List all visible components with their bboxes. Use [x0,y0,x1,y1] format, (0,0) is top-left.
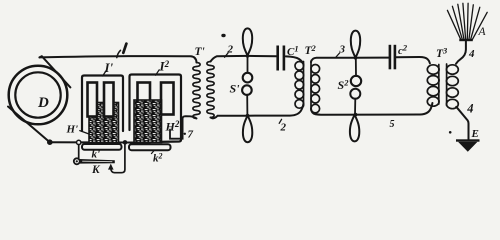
key contact arrowhead [108,164,114,170]
label I1 leader tick [103,71,107,76]
wire antenna lead [456,41,466,64]
node dot [246,54,250,58]
wire key drop [78,145,80,158]
spark gap S1 ball upper [243,73,253,83]
node dot [246,114,250,118]
antenna rays [447,10,460,39]
transformer T3 secondary spine [446,64,448,106]
svg-text:T': T' [195,46,205,58]
transformer T3 primary loops [427,65,439,74]
capacitor C2 plate right [394,45,397,70]
svg-text:H': H' [66,124,79,136]
wire bottom bus [50,141,150,143]
wire tangent top brush [39,56,70,87]
wire 4 to earth [456,107,468,140]
spark gap S1 ball lower [242,85,252,95]
transformer T3 secondary loops [447,65,459,74]
wire 7 from H2 to T1 primary [170,116,197,139]
fleck dot [221,34,225,37]
transformer T2 primary spine [303,62,305,107]
capacitor C2 plate left [389,45,392,70]
transformer T1 primary winding [193,63,200,119]
node junction ring key K [77,140,81,144]
key K pivot ring [74,158,80,164]
induction coil I1 window right [104,83,114,117]
wire C2 to T3 [396,57,430,63]
induction coil I2 window right [161,83,174,115]
node dot [354,56,358,60]
svg-text:4: 4 [468,48,475,60]
wire 1 top bus [40,56,197,62]
transformer T1 secondary winding [207,62,214,118]
spark gap S2 balloon top [351,31,360,58]
svg-text:2: 2 [280,122,287,134]
transformer T3 primary spine [438,65,440,105]
induction coil I2 outer frame [130,75,182,142]
svg-text:3: 3 [339,44,346,56]
key base k2 platform [129,144,171,150]
spark gap S2 lower lead [354,99,356,115]
wire key contact loop [111,145,125,173]
key base k1 platform [82,144,122,150]
node dot near label 7 [184,133,186,135]
node dynamo bottom terminal dot [47,139,53,145]
capacitor C1 plate left [276,46,279,71]
wire 2 top [211,56,277,62]
svg-text:I': I' [104,60,114,75]
spark gap S1 lower lead [246,95,248,116]
antenna bar [459,39,473,41]
label 1 [123,44,126,53]
wire tangent bottom brush [8,107,50,143]
svg-text:2: 2 [227,44,234,56]
transformer T2 secondary spine [310,62,312,110]
svg-text:D: D [37,95,49,111]
svg-text:k': k' [92,149,101,161]
tick for bottom label 2 [279,119,281,123]
primary block H1 [89,103,119,144]
spark gap S2 balloon bottom [350,115,359,142]
transformer T2 primary loops [295,62,304,71]
induction coil I2 window left [138,83,151,115]
svg-text:S': S' [230,82,241,96]
spark gap S1 balloon top [243,28,252,55]
tick for label 1 [117,50,121,57]
spark gap S2 upper lead [355,58,357,76]
wire 5 [311,103,432,115]
spark gap S1 upper lead [247,56,249,72]
node dot [354,113,358,117]
transformer T2 secondary loops [311,65,320,74]
svg-text:5: 5 [390,119,395,130]
dynamo D outer circle [9,66,68,125]
label I2 leader tick [156,70,160,75]
wire 3 [311,58,389,62]
wire C1 to T2 [286,56,304,65]
node dot near E [449,131,452,134]
spark gap S1 balloon bottom [243,116,252,143]
svg-text:K: K [91,164,101,176]
induction coil I1 window left [88,83,98,117]
tick for label 2 [225,53,228,57]
node junction dot [123,140,128,145]
svg-text:A: A [478,26,487,38]
primary block H2 [134,100,162,143]
key K lever [80,159,115,164]
tick for label 3 [336,53,340,57]
capacitor C1 plate right [283,46,286,71]
earth triangle [458,142,478,152]
svg-text:7: 7 [188,129,194,141]
dynamo D inner circle [15,72,60,117]
spark gap S2 ball lower [350,89,360,99]
induction coil I1 outer frame [82,76,123,132]
label H1 leader [80,131,90,135]
svg-text:E: E [471,128,479,140]
svg-text:4: 4 [466,101,473,115]
wire 2 bottom [211,104,304,118]
label k2 leader tick [151,151,154,154]
earth bar [456,139,480,141]
spark gap S2 ball upper [351,76,361,86]
